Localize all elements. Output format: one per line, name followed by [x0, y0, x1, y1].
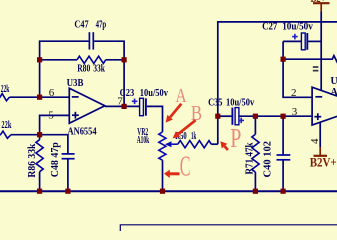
svg-text:C40 102: C40 102 [263, 141, 274, 178]
op-amp U3B [67, 78, 105, 138]
junction R86 ground [37, 189, 42, 194]
resistor R86 [27, 135, 43, 192]
svg-text:10u/50v: 10u/50v [226, 98, 254, 109]
capacitor C40 [263, 116, 291, 191]
resistor R50 [175, 131, 218, 148]
junction VR2 ground [160, 189, 165, 194]
op-amp U1A (right, cut) [312, 76, 337, 125]
wire B2+ branch down [218, 22, 337, 116]
pin 8 marker bars [313, 66, 319, 68]
svg-text:C47: C47 [74, 19, 88, 30]
junction C40 ground [281, 189, 286, 194]
svg-text:A10k: A10k [137, 135, 150, 146]
svg-text:B2V+: B2V+ [310, 155, 337, 170]
capacitor C35 [208, 98, 254, 125]
resistor R80 [40, 56, 125, 74]
svg-text:C: C [180, 151, 191, 182]
junction C27/pin2 node [281, 57, 286, 62]
svg-text:22k: 22k [1, 120, 11, 131]
svg-text:U1: U1 [331, 76, 337, 87]
svg-text:C27: C27 [262, 21, 277, 32]
svg-text:2: 2 [291, 87, 297, 99]
junction pin7 output node [122, 104, 127, 109]
annotation arrow C [164, 170, 180, 178]
svg-text:1k: 1k [191, 131, 196, 142]
svg-text:AN6554: AN6554 [68, 127, 97, 138]
ground rail wire [0, 190, 337, 192]
svg-text:C23: C23 [120, 88, 135, 99]
svg-text:3: 3 [292, 106, 298, 118]
junction C48 ground [65, 189, 70, 194]
resistor 22k (pin5 input, cut at left) [0, 120, 68, 139]
wire C47 right segment [94, 41, 124, 106]
svg-text:22k: 22k [1, 84, 10, 95]
svg-text:R71 47k: R71 47k [245, 142, 256, 174]
junction pin6 node [37, 95, 42, 100]
svg-text:R80: R80 [77, 64, 90, 75]
potentiometer VR2 [137, 127, 178, 191]
capacitor C47 [89, 32, 93, 49]
svg-text:6: 6 [49, 87, 55, 99]
annotation arrow P [220, 141, 228, 150]
wire output pin7 to C23 [105, 105, 139, 107]
svg-text:4: 4 [309, 138, 321, 144]
junction node P (C35 left) [215, 114, 220, 119]
wire R50 up to C35 node [217, 116, 219, 144]
junction R71 ground [253, 189, 258, 194]
svg-text:10u/50v: 10u/50v [140, 88, 168, 99]
junction R80 left / feedback node [37, 57, 42, 62]
wire C47 top feedback [40, 41, 89, 97]
svg-text:33k: 33k [93, 64, 105, 75]
svg-text:U3B: U3B [67, 78, 84, 89]
power B2+ [311, 0, 330, 90]
svg-text:C35: C35 [208, 98, 222, 109]
resistor R71 [245, 116, 260, 191]
wire C35 to pin3 [239, 115, 312, 117]
junction R80 right / feedback node [122, 57, 127, 62]
box corner bottom right [120, 225, 337, 231]
wire C23 to VR2 top [147, 106, 163, 131]
junction C35/R71 node [253, 114, 258, 119]
svg-text:R86 33k: R86 33k [27, 143, 38, 177]
annotation arrow B [173, 120, 196, 138]
wire node 59 to right resistor stub [283, 56, 337, 63]
svg-text:10u/50v: 10u/50v [282, 21, 313, 32]
svg-text:P: P [230, 123, 241, 153]
capacitor C23 [120, 88, 168, 116]
power B2V+ pin4 [309, 123, 337, 170]
wire pin5 [40, 115, 70, 134]
svg-text:47p: 47p [96, 19, 107, 30]
junction pin5 node [37, 132, 42, 137]
annotation arrow A [166, 104, 182, 123]
svg-text:A1: A1 [331, 87, 337, 98]
svg-text:C48 47p: C48 47p [50, 142, 61, 177]
capacitor C27 [262, 21, 321, 50]
resistor 22k (pin6 input, cut at left) [0, 60, 69, 101]
capacitor C48 [50, 135, 74, 192]
junction C35/C40 node [281, 114, 286, 119]
svg-text:B2+: B2+ [311, 0, 326, 5]
wire pin2 vertical from C27 [283, 41, 312, 97]
